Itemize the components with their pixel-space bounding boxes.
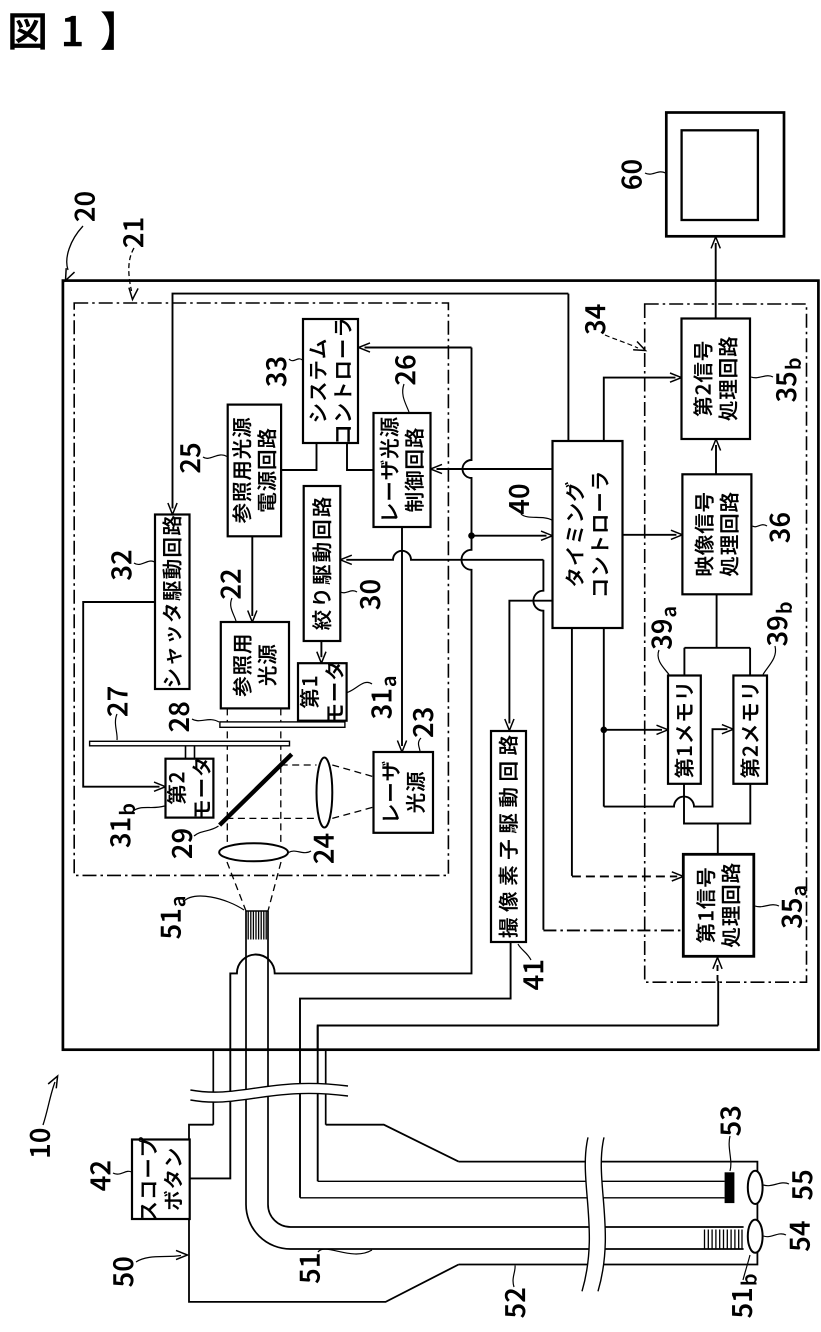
processor unit outer box 20 bbox=[63, 281, 819, 1050]
tube break (wavy) bbox=[582, 1137, 605, 1291]
label 10 bbox=[30, 1129, 51, 1157]
label 22 bbox=[220, 570, 240, 599]
label 26 bbox=[395, 355, 416, 384]
wire 33 to 26 bbox=[347, 443, 374, 470]
CCD 53 at tube end bbox=[725, 1172, 735, 1203]
label 39a bbox=[651, 607, 676, 649]
wire aperture drive 30 to motor 31 bbox=[320, 641, 322, 657]
label 55 bbox=[792, 1171, 812, 1200]
shaft 27 to motor 31b bbox=[186, 746, 195, 759]
box 35a first signal processing circuit bbox=[683, 854, 754, 956]
box 31b second motor bbox=[166, 759, 214, 818]
dash-dot unit boundary 34 bbox=[645, 304, 807, 982]
fiber tip hatching 51a bbox=[248, 912, 266, 940]
illumination lens 54 bbox=[748, 1220, 763, 1253]
dashed cone lens 24 to fiber 51a bbox=[227, 862, 281, 911]
wire 40 to CCD drive 41 with hop bbox=[509, 601, 552, 724]
label 28 bbox=[169, 702, 190, 731]
wire CCD signal lower run bbox=[317, 1026, 319, 1182]
dashed light beam from lamp 22 down bbox=[227, 708, 280, 843]
label 20 bbox=[74, 192, 95, 221]
collimator lens (laser) bbox=[317, 758, 333, 828]
box 36 video signal processing circuit bbox=[682, 474, 751, 594]
box 23 laser light source bbox=[374, 752, 434, 833]
monitor 60 bbox=[666, 113, 784, 237]
wire 33 to 25 bbox=[281, 443, 316, 470]
objective lens 55 bbox=[748, 1171, 763, 1204]
wire timing controller 40 to shutter drive 32 (top run) bbox=[173, 294, 569, 509]
figure header 図1】 bbox=[10, 13, 45, 49]
label 29 bbox=[172, 829, 193, 858]
junction dot scope button wire bbox=[468, 532, 475, 539]
scope body 50 outline bbox=[189, 1125, 459, 1302]
wire memory outputs to 35a bbox=[684, 784, 750, 824]
wire laser control 26 to laser 23 bbox=[401, 527, 403, 746]
label 52 bbox=[505, 1289, 526, 1318]
label 30 bbox=[360, 580, 381, 609]
wire CCD signal from scope to 35a bbox=[318, 981, 719, 1050]
label 36 bbox=[769, 513, 790, 542]
label 31a bbox=[371, 677, 396, 719]
box 42 scope button bbox=[132, 1140, 190, 1220]
wire scope button to system controller 33 bbox=[365, 347, 472, 349]
wire 40 to 35a (sync, dashed) bbox=[571, 628, 573, 876]
wire 40 to signal circuit 35b bbox=[604, 378, 676, 441]
wire 36 to 35b bbox=[715, 445, 717, 474]
label 21 bbox=[123, 219, 143, 248]
wire 40 to memories 39a 39b bbox=[603, 628, 605, 807]
label 31b bbox=[110, 804, 135, 847]
wire 40 to laser control 26 bbox=[437, 468, 553, 470]
label 32 bbox=[111, 551, 132, 580]
shutter plate 27 bbox=[90, 741, 290, 746]
box 39a first memory bbox=[668, 676, 701, 784]
wire branch to timing controller 40 bbox=[472, 535, 547, 537]
box 25 reference light power circuit bbox=[228, 405, 281, 537]
label 34 bbox=[585, 304, 606, 334]
label 51 bbox=[300, 1254, 320, 1283]
box 41 image sensor drive circuit bbox=[491, 731, 526, 942]
label 35a bbox=[781, 886, 806, 928]
dash-dot unit boundary 21 bbox=[74, 303, 448, 875]
label 50 bbox=[113, 1257, 134, 1286]
label 42 bbox=[90, 1161, 110, 1190]
box 33 system controller bbox=[303, 319, 358, 443]
optical fiber 51a entering processor bbox=[246, 911, 744, 1249]
wire CCD drive 41 to scope bbox=[300, 942, 511, 1198]
cable walls processor to scope bbox=[213, 1050, 325, 1125]
box 30 aperture drive circuit bbox=[304, 486, 341, 641]
wire dimming signal 35a to aperture drive 30 bbox=[346, 551, 543, 560]
half mirror 29 bbox=[220, 754, 292, 825]
label 41 bbox=[523, 961, 543, 990]
wire scope button riser with hops bbox=[190, 348, 472, 1179]
label 23 bbox=[413, 708, 434, 737]
label 53 bbox=[720, 1107, 741, 1136]
label 35b bbox=[776, 358, 801, 401]
box 31 first motor bbox=[298, 663, 347, 721]
wire reference power 25 to lamp 22 bbox=[251, 536, 253, 616]
label 24 bbox=[313, 834, 333, 864]
condenser lens 24 bbox=[219, 843, 288, 861]
fiber end hatching 51b bbox=[705, 1230, 743, 1249]
box 35b second signal processing circuit bbox=[682, 319, 751, 440]
dashed laser beam lens to laser 23 bbox=[332, 765, 373, 818]
wire 40 to video circuit 36 bbox=[623, 534, 677, 536]
label 39b bbox=[767, 602, 792, 645]
insertion tube 52 bbox=[459, 1162, 758, 1265]
label 33 bbox=[266, 357, 287, 386]
label 54 bbox=[790, 1221, 810, 1251]
signal channel walls in tube bbox=[300, 1181, 725, 1198]
box 32 shutter drive circuit bbox=[155, 515, 190, 690]
box 39b second memory bbox=[733, 676, 767, 784]
label 51b bbox=[732, 1274, 757, 1317]
shutter bar 28 bbox=[220, 722, 345, 727]
box 22 reference light source bbox=[221, 622, 289, 708]
wire 36 to memories bbox=[684, 594, 750, 675]
label 27 bbox=[107, 687, 127, 716]
label 25 bbox=[180, 444, 201, 473]
label 60 bbox=[621, 160, 642, 189]
box 26 laser control circuit bbox=[374, 413, 431, 527]
label 51a bbox=[161, 897, 186, 939]
dashed laser beam mirror to lens bbox=[226, 765, 316, 818]
cable break (wavy) bbox=[190, 1083, 348, 1102]
wire shutter drive 32 to motor 31b bbox=[83, 602, 159, 787]
box 40 timing controller bbox=[553, 441, 623, 628]
wire 35b to monitor 60 bbox=[715, 243, 717, 319]
label 40 bbox=[509, 485, 530, 515]
